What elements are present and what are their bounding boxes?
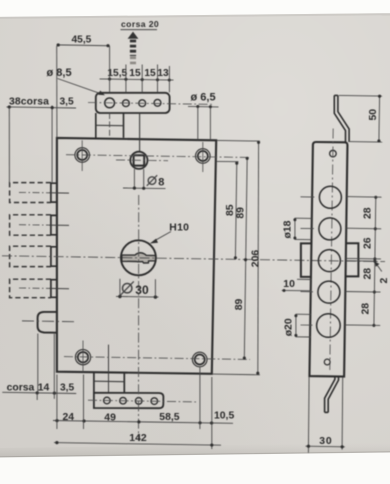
left flange — [301, 243, 312, 277]
top plate hole 2 — [123, 100, 130, 107]
svg-text:45,5: 45,5 — [72, 35, 92, 46]
hole 4 extension line — [157, 65, 159, 93]
keyhole vertical centerline — [138, 195, 140, 441]
square follower horizontal centerline — [116, 159, 168, 162]
top plate holes centerline — [88, 103, 214, 105]
bottom-left screw hole — [75, 350, 90, 365]
dia 30 dimension line — [116, 295, 159, 298]
top-right screw hole — [196, 149, 211, 164]
strip hole 4 — [318, 281, 340, 303]
svg-text:H10: H10 — [169, 223, 189, 234]
svg-text:24: 24 — [63, 412, 75, 423]
plate right edge extension line — [168, 66, 170, 92]
svg-text:49: 49 — [104, 413, 116, 424]
label diameter 20 — [296, 313, 311, 315]
label 2 with leader — [377, 264, 382, 271]
svg-text:ø20: ø20 — [283, 318, 294, 336]
right side vertical dims 85 89 206 89 — [217, 160, 239, 162]
svg-text:15: 15 — [129, 68, 141, 79]
svg-text:14: 14 — [38, 383, 50, 394]
svg-text:28: 28 — [362, 268, 373, 280]
svg-text:15,5: 15,5 — [107, 68, 127, 79]
svg-text:ø 8,5: ø 8,5 — [47, 67, 72, 79]
lock body outline — [57, 138, 216, 374]
bolt 1 dashed extended outline — [10, 183, 51, 203]
strip hole 2 left centerline stub — [301, 227, 314, 229]
paper bottom edge shadow — [0, 443, 390, 457]
key slot profile — [122, 253, 156, 263]
bolt 4 stub — [51, 280, 57, 298]
extension lines right — [217, 139, 260, 142]
top plate hole 3 — [139, 100, 146, 107]
svg-text:89: 89 — [234, 299, 245, 311]
bolt 2 stub — [51, 215, 57, 234]
hidden mechanism line above bottom plate — [108, 345, 110, 393]
top-left screw vertical centerline — [81, 140, 83, 171]
strip small bottom hole — [324, 359, 330, 365]
bolt 1 centerline — [19, 191, 49, 193]
svg-text:3,5: 3,5 — [60, 383, 74, 394]
svg-text:28: 28 — [361, 303, 372, 315]
bottom mounting plate — [94, 393, 163, 408]
svg-text:8: 8 — [158, 177, 164, 189]
bottom plate holes centerline — [88, 400, 196, 402]
svg-text:206: 206 — [250, 250, 261, 268]
bottom plate hole 3 — [135, 398, 142, 405]
strip hole 3 — [318, 250, 340, 272]
38 corsa dimension line — [7, 107, 77, 108]
right hole-pitch dimension line — [374, 197, 376, 326]
svg-text:3,5: 3,5 — [60, 97, 74, 108]
latch centerline — [22, 320, 74, 323]
svg-text:142: 142 — [129, 433, 147, 444]
bolt 1 stub — [51, 183, 57, 202]
svg-text:30: 30 — [319, 436, 332, 447]
square follower circle — [130, 152, 147, 169]
svg-text:26: 26 — [362, 237, 373, 249]
strip hole 5 (dia 20) — [317, 314, 341, 338]
bottom-left screw vertical centerline — [82, 341, 84, 372]
strip axis centerline — [330, 129, 333, 371]
svg-text:10,5: 10,5 — [214, 411, 234, 422]
H10 leader arrow — [154, 232, 172, 242]
svg-text:38corsa: 38corsa — [9, 97, 49, 108]
svg-text:30: 30 — [135, 283, 149, 297]
svg-text:58,5: 58,5 — [159, 412, 179, 423]
dimension 50 — [339, 94, 383, 97]
bolt 4 dashed extended outline — [10, 279, 51, 298]
top-right screw vertical centerline — [202, 142, 204, 172]
bottom-right screw hole — [192, 352, 207, 367]
corsa 20 stroke arrow — [128, 32, 139, 39]
svg-text:89: 89 — [236, 207, 247, 219]
bolt 3 dashed extended outline — [10, 246, 51, 266]
top plate hole 1 (dia 8,5) — [105, 98, 115, 108]
svg-text:10: 10 — [283, 279, 295, 290]
svg-text:85: 85 — [225, 204, 236, 216]
white table below paper edge — [0, 452, 390, 484]
hole 1 extension line — [109, 46, 111, 93]
hole 3 extension line — [141, 65, 143, 93]
side strip body — [309, 142, 347, 377]
label diameter 30 — [123, 284, 132, 293]
strip hole 1 — [319, 186, 341, 208]
bottom bent tab — [325, 376, 335, 412]
extension lines from strip holes — [347, 196, 382, 199]
bottom plate hole 2 — [120, 397, 127, 404]
bottom plate hole 4 — [151, 398, 158, 405]
bottom plate hole 1 — [104, 397, 111, 404]
top plate neck left edge — [95, 113, 97, 138]
svg-text:ø18: ø18 — [282, 220, 293, 238]
bottom screws horizontal centerline — [64, 357, 250, 360]
top mounting plate — [96, 93, 170, 113]
svg-text:ø 6,5: ø 6,5 — [191, 92, 216, 104]
svg-text:28: 28 — [362, 207, 373, 219]
square follower square hole — [134, 155, 145, 165]
bottom neck right edge — [123, 372, 125, 393]
white area above paper top edge — [0, 0, 390, 17]
latch bolt — [38, 312, 57, 333]
keyhole horizontal centerline across sheet — [2, 256, 385, 262]
strip hole 1 left centerline stub — [301, 196, 315, 198]
bolt retracted face extension line — [51, 106, 53, 183]
top-left screw hole — [75, 148, 90, 163]
hole 2 extension line — [125, 65, 127, 93]
bolt 2 centerline — [19, 224, 49, 226]
dia 8 extension lines — [133, 169, 135, 188]
strip hole 2 — [319, 218, 341, 240]
label diameter 18 — [295, 217, 312, 219]
svg-text:corsa 20: corsa 20 — [121, 19, 159, 29]
strip small top hole — [330, 150, 337, 157]
latch face extension lines — [37, 334, 39, 393]
bottom neck mid line — [94, 380, 124, 383]
square follower stem line — [139, 113, 141, 152]
strip hole 4 left centerline stub — [301, 291, 314, 293]
corsa 14 dimension line — [2, 392, 76, 393]
bolt 4 centerline — [19, 287, 49, 289]
neck hole1 hidden line — [109, 113, 111, 138]
bottom neck left edge — [93, 372, 95, 393]
dimension 30 — [307, 377, 310, 453]
keyhole cylinder circle — [121, 240, 156, 275]
svg-text:2: 2 — [379, 278, 390, 284]
top bent tab — [334, 95, 345, 141]
bolt 3 stub — [51, 247, 57, 266]
right flange — [346, 243, 358, 276]
svg-text:15: 15 — [144, 68, 156, 79]
bolt 2 dashed extended outline — [10, 215, 51, 235]
top plate hole 4 — [154, 99, 161, 106]
extension lines for bottom chain — [56, 375, 58, 430]
svg-text:13: 13 — [157, 68, 169, 79]
svg-text:50: 50 — [368, 109, 379, 121]
leader to plate hole 1 — [58, 79, 103, 95]
body-edge extension line up from top-left corner — [56, 46, 58, 138]
strip hole 5 left centerline stub — [301, 324, 313, 326]
label diameter 8 — [148, 177, 156, 185]
top screws horizontal centerline — [66, 155, 250, 158]
top plate neck right edge — [123, 113, 125, 138]
hole pitch dimension line — [100, 79, 174, 80]
top plate neck mid line — [96, 124, 124, 126]
